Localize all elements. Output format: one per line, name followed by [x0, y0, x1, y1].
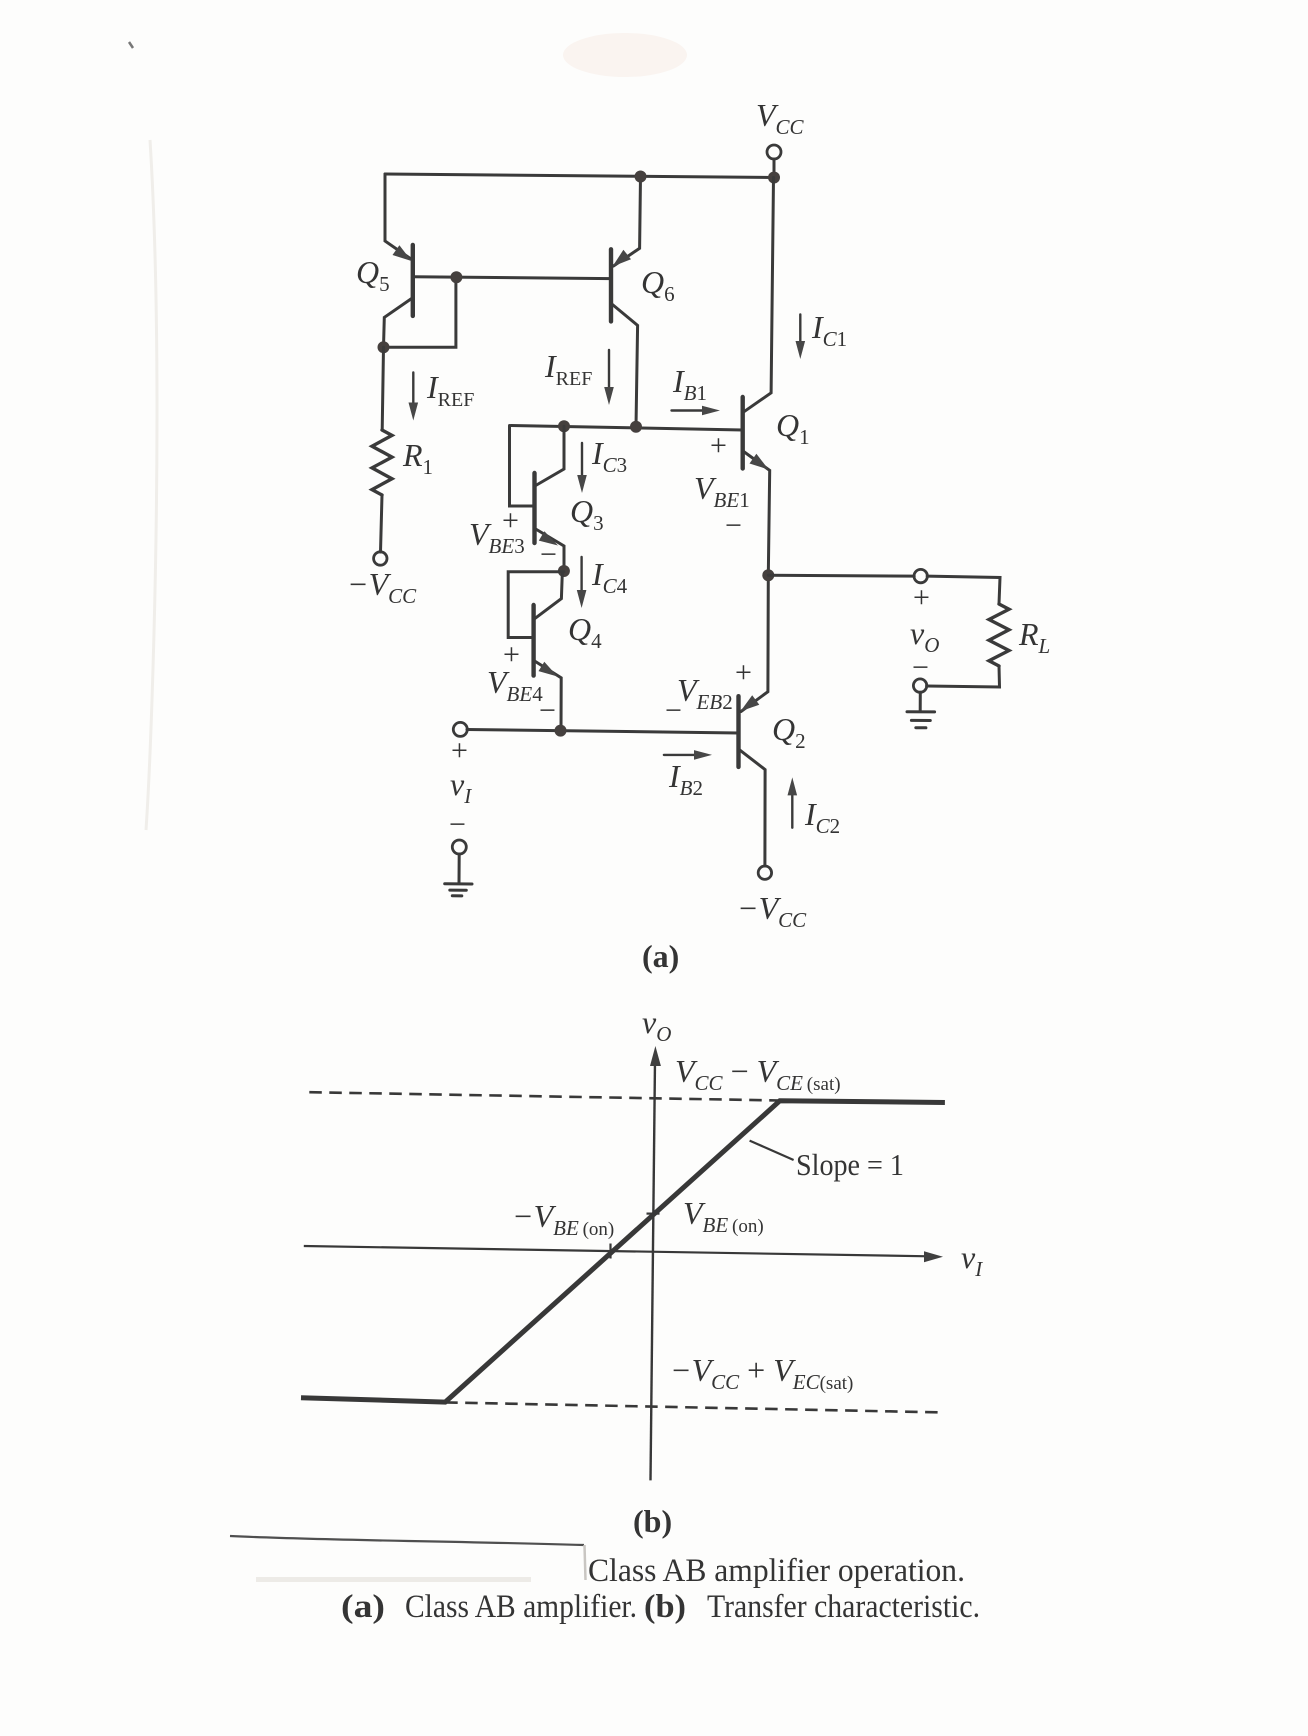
wire Q5 collector to R1 [382, 347, 383, 430]
current arrow head IC3 [577, 475, 587, 493]
svg-text:−: − [725, 509, 742, 542]
graph vO axis vertical [651, 1060, 656, 1480]
wire Q1 emitter to output node and Q2 emitter [741, 575, 768, 711]
wire output node to vO terminal [768, 574, 914, 578]
wire RL bottom to lower vO terminal [927, 666, 1000, 687]
svg-text:−: − [912, 651, 929, 684]
node top rail junction at Q6 [635, 171, 647, 183]
current arrow head IREF middle [604, 387, 614, 405]
resistor R1 [372, 430, 392, 495]
terminal -VCC left [374, 552, 387, 565]
svg-text:vO: vO [642, 1004, 671, 1046]
svg-text:−: − [539, 694, 556, 727]
scan artifact hook [585, 1545, 586, 1580]
wire Q5 collector diode tie [384, 277, 456, 347]
svg-text:(a): (a) [341, 1589, 385, 1625]
svg-text:vI: vI [450, 766, 472, 808]
graph vI axis horizontal [304, 1246, 929, 1256]
current arrow head IB1 [702, 406, 720, 416]
current arrow head IREF left [409, 403, 419, 421]
svg-text:−VBE (on): −VBE (on) [512, 1198, 614, 1240]
transfer curve [301, 1101, 945, 1402]
node Q3 emitter / Q4 junction [558, 565, 570, 577]
svg-text:−: − [540, 538, 557, 571]
node Q5 base junction [450, 271, 462, 283]
node Q3 collector junction [558, 420, 570, 432]
graph top dashed saturation line [309, 1092, 780, 1100]
node top rail junction at VCC [768, 172, 780, 184]
wire base node row [511, 426, 743, 431]
svg-text:Transfer characteristic.: Transfer characteristic. [707, 1589, 980, 1625]
svg-text:Q6: Q6 [641, 264, 675, 306]
current arrow head IC2 [788, 777, 798, 795]
terminal vI upper [453, 722, 467, 736]
svg-text:−: − [665, 694, 682, 727]
svg-text:Q4: Q4 [568, 611, 602, 653]
tick on vO axis at VBE(on) [647, 1212, 660, 1214]
node Q6 collector junction [630, 421, 642, 433]
svg-text:VBE1: VBE1 [694, 470, 750, 512]
current arrow IC3 shaft [581, 443, 583, 477]
svg-text:VBE (on): VBE (on) [683, 1195, 764, 1237]
svg-text:IC3: IC3 [591, 435, 627, 477]
wire vI ground stem [458, 854, 461, 883]
svg-text:+: + [735, 656, 752, 689]
svg-text:(b): (b) [644, 1589, 686, 1625]
svg-text:Slope = 1: Slope = 1 [796, 1147, 904, 1182]
svg-text:IREF: IREF [426, 369, 474, 411]
svg-text:VCC: VCC [756, 97, 805, 139]
current arrow head IB2 [694, 750, 712, 760]
svg-text:Class AB amplifier operation.: Class AB amplifier operation. [588, 1553, 965, 1589]
wire Q1 collector to rail [744, 178, 774, 412]
svg-text:(b): (b) [633, 1503, 672, 1539]
current arrow IREF left shaft [412, 373, 414, 408]
svg-text:−VCC + VEC(sat): −VCC + VEC(sat) [670, 1352, 853, 1394]
terminal vO lower [913, 679, 926, 692]
graph vO axis arrow head [650, 1046, 661, 1066]
current arrow IREF middle shaft [608, 350, 610, 392]
svg-text:IREF: IREF [544, 348, 592, 390]
node input junction [555, 725, 567, 737]
transistor Q2 [739, 695, 766, 866]
scan smudge top [563, 33, 687, 77]
current arrow IC2 shaft [791, 790, 793, 828]
svg-text:VCC − VCE (sat): VCC − VCE (sat) [675, 1053, 841, 1095]
transistor Q6 [611, 177, 641, 427]
wire input row vI to Q2 base [467, 730, 739, 734]
current arrow head IC1 [796, 341, 806, 359]
svg-text:VEB2: VEB2 [677, 672, 733, 714]
wire vO terminal to RL [927, 576, 1000, 604]
svg-text:IC4: IC4 [591, 556, 628, 598]
node Q5 collector junction [378, 341, 390, 353]
svg-text:(a): (a) [642, 938, 679, 974]
transistor Q4 diode-connected [508, 572, 564, 731]
svg-text:Class AB amplifier.: Class AB amplifier. [405, 1589, 637, 1625]
svg-text:Q3: Q3 [570, 493, 604, 535]
graph vI axis arrow head [924, 1251, 943, 1262]
svg-text:+: + [710, 429, 727, 462]
scan speck [129, 42, 133, 48]
svg-text:Q5: Q5 [356, 254, 390, 296]
svg-text:−: − [449, 808, 466, 841]
wire R1 to -VCC terminal [381, 495, 383, 552]
slope pointer line [750, 1141, 794, 1160]
graph bottom dashed saturation line [445, 1402, 941, 1412]
svg-text:Q1: Q1 [776, 407, 810, 449]
current arrow IC1 shaft [799, 314, 801, 346]
node output junction [762, 569, 774, 581]
svg-text:+: + [502, 504, 519, 537]
svg-text:IC2: IC2 [804, 796, 840, 838]
ground at vI [445, 884, 472, 896]
ground at vO [907, 712, 935, 728]
wire VCC terminal stem [773, 159, 776, 178]
scan paper edge left [146, 140, 157, 830]
wire Q5 base to Q6 base [413, 277, 611, 279]
svg-text:RL: RL [1018, 616, 1050, 658]
svg-text:IB2: IB2 [668, 758, 703, 800]
svg-text:+: + [913, 581, 930, 614]
svg-text:vI: vI [961, 1239, 983, 1281]
svg-text:Q2: Q2 [772, 711, 806, 753]
scan artifact line above caption [230, 1536, 584, 1545]
svg-text:+: + [451, 734, 468, 767]
svg-text:IB1: IB1 [672, 363, 707, 405]
terminal vO upper [914, 569, 927, 582]
scan streak under caption [256, 1577, 531, 1582]
transistor Q1 [743, 397, 770, 575]
resistor RL [989, 604, 1009, 666]
transistor Q5 [384, 174, 413, 347]
terminal -VCC bottom [758, 866, 771, 879]
current arrow IB2 shaft [664, 754, 699, 756]
terminal vI lower [452, 840, 466, 854]
tick on vI axis at -VBE(on) [609, 1244, 611, 1259]
current arrow IC4 shaft [580, 557, 582, 591]
svg-text:−VCC: −VCC [347, 566, 417, 608]
svg-text:R1: R1 [402, 437, 433, 479]
current arrow IB1 shaft [672, 409, 708, 411]
svg-text:−VCC: −VCC [737, 890, 807, 932]
wire top supply rail [385, 174, 774, 178]
current arrow head IC4 [577, 590, 587, 608]
transistor Q3 diode-connected [510, 426, 565, 572]
wire ground stem at vO [919, 692, 922, 711]
terminal VCC [767, 145, 781, 159]
svg-text:IC1: IC1 [811, 309, 847, 351]
